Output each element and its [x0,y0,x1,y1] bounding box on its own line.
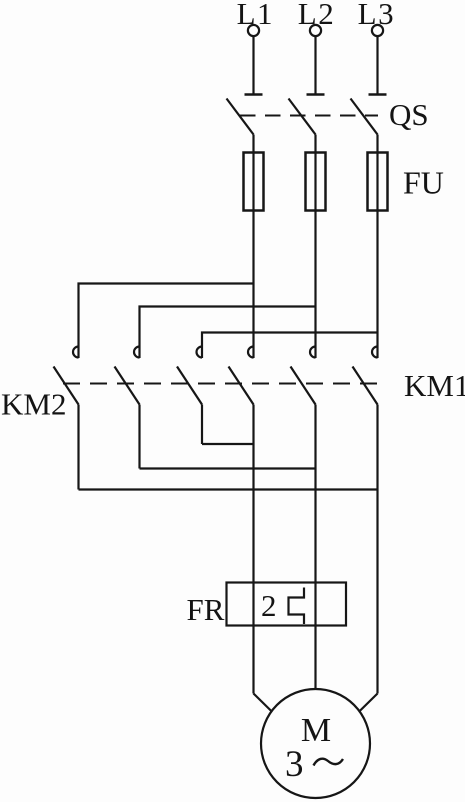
fuse FU 1 link wire [252,153,254,211]
wire crossover C: L3 branch to KM2 pole3 [202,333,378,359]
terminal circle L2 [310,25,321,36]
wire crossover B: L2 branch to KM2 pole2 [140,307,316,359]
svg-text:FR: FR [187,592,225,627]
wire KM2 pole2 down [138,405,140,469]
switch QS pole 2 fixed contact bar [307,93,325,96]
motor M circle [261,689,370,798]
fuse FU 1 body [244,153,264,211]
contact blade KM2 pole3 [177,367,202,405]
wire QS to fuse 3 [376,135,378,153]
wire QS to fuse 2 [314,135,316,153]
wire KM1 pole4 down to FR [252,405,254,583]
wire L3 to QS [376,36,378,94]
thermal relay FR box [227,583,347,626]
contact blade KM1 pole5 [291,367,316,405]
wire FR to motor phase V [314,626,316,690]
motor label tilde [314,759,344,766]
fuse FU 2 link wire [314,153,316,211]
contact blade KM1 pole4 [229,367,254,405]
contact arc KM2 pole3 [197,347,203,358]
switch QS pole 3 blade [351,99,378,135]
wire phase U through FR [252,583,254,626]
switch QS linkage dashed line [240,115,378,117]
wire QS to fuse 1 [252,135,254,153]
wire crossover F: KM2 pole1 to phase W [79,488,378,490]
wire crossover E: KM2 pole2 to phase V [140,467,316,469]
svg-text:KM2: KM2 [1,387,66,422]
wire fuse2 down to KM1 pole5 contact [314,211,316,359]
svg-text:L2: L2 [298,0,335,31]
wire L2 to QS [314,36,316,94]
contact blade KM1 pole6 [353,367,378,405]
terminal circle L3 [372,25,383,36]
wire fuse1 down to KM1 pole4 contact [252,211,254,359]
fuse FU 3 link wire [376,153,378,211]
switch QS pole 2 blade [289,99,316,135]
svg-text:3: 3 [285,744,304,785]
svg-text:QS: QS [389,97,429,132]
wire motor lead W diagonal [359,694,377,712]
svg-text:2: 2 [261,588,277,623]
switch QS pole 3 fixed contact bar [369,93,387,96]
wire fuse3 down to KM1 pole6 contact [376,211,378,359]
fuse FU 2 body [306,153,326,211]
contact arc KM1 pole4 [248,347,253,358]
switch QS pole 1 blade [227,99,254,135]
wire KM1 pole5 down to FR [314,405,316,583]
wire motor lead U diagonal [254,694,272,712]
contact blade KM2 pole2 [115,367,140,405]
wire FR to motor phase U [252,626,254,694]
svg-text:FU: FU [403,165,444,201]
svg-text:M: M [301,712,331,749]
thermal relay FR heater element symbol [289,588,305,625]
contact arc KM2 pole1 [73,347,79,358]
terminal circle L1 [248,25,259,36]
contact blade KM2 pole1 [54,367,79,405]
wire KM2 pole1 down [77,405,79,490]
switch QS pole 1 fixed contact bar [245,93,263,96]
svg-text:L3: L3 [358,0,395,31]
wire KM2 pole3 down [201,405,203,445]
wire KM1 pole6 down to motor branch [376,405,378,694]
svg-text:KM1: KM1 [404,368,465,403]
contact arc KM1 pole5 [310,347,315,358]
contactor linkage dashed line KM2-KM1 [63,383,379,385]
wire crossover D: KM2 pole3 to phase U [202,443,254,445]
contact arc KM2 pole2 [134,347,139,358]
contact arc KM1 pole6 [372,347,377,358]
wire crossover A: L1 branch to KM2 pole1 [79,284,254,359]
wire phase V through FR [314,583,316,626]
wire L1 to QS [252,36,254,94]
fuse FU 3 body [368,153,388,211]
